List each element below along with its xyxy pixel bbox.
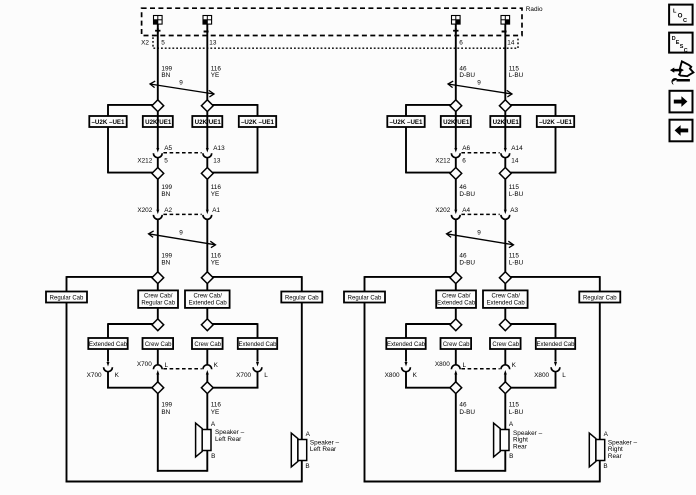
connector X800 link [461,368,499,370]
svg-text:6: 6 [462,158,466,165]
radio (dashed outline box) [142,8,522,35]
svg-text:L-BU: L-BU [509,191,524,198]
connector X212 pin A14/14 [501,148,510,158]
svg-text:L-BU: L-BU [509,260,524,267]
svg-text:46: 46 [459,184,467,191]
wire [108,172,153,174]
cab box Regular Cab [281,292,322,303]
svg-text:9: 9 [179,79,183,86]
wire 116 YE [206,179,208,210]
svg-text:Rear: Rear [513,444,528,451]
svg-text:BN: BN [161,72,170,79]
svg-text:Regular Cab: Regular Cab [50,296,84,302]
splice diamond [201,100,213,112]
svg-text:115: 115 [509,253,520,260]
svg-text:YE: YE [211,260,220,267]
cab box Crew Cab [490,338,521,349]
connector X202 pin A4 [451,210,460,220]
wire [406,172,451,174]
cab box Crew Cab [192,338,223,349]
icon related repair (arrows and wrench) [670,61,694,85]
wire 199 BN [157,179,159,210]
option box -U2K -UE1 [387,116,424,127]
wire [455,308,457,319]
svg-text:D-BU: D-BU [459,72,475,79]
svg-text:Crew Cab: Crew Cab [443,342,470,348]
label Speaker Left Rear [310,439,340,453]
option box -U2K -UE1 [239,116,276,127]
splice diamond [152,272,164,284]
svg-text:K: K [214,362,219,369]
svg-text:116: 116 [211,253,222,260]
connector X700 pin K (extended cab) [104,362,113,372]
svg-text:X212: X212 [435,158,450,165]
svg-text:Crew Cab: Crew Cab [145,342,172,348]
wire 199 BN [157,219,159,271]
svg-text:C: C [683,18,687,24]
icon LOC (component location) [669,5,693,25]
svg-text:X202: X202 [435,207,450,214]
wire extended cab branch [108,323,153,325]
wire regular cab return [511,276,600,278]
wire regular cab feed [67,276,153,278]
svg-text:6: 6 [459,39,463,46]
polarity + [453,28,458,33]
svg-text:Left Rear: Left Rear [215,436,242,443]
twisted pair marker 9 [448,81,512,97]
option box U2K/UE1 [192,116,222,127]
svg-text:116: 116 [211,184,222,191]
connector X202 pin A3 [501,210,510,220]
svg-text:9: 9 [477,229,481,236]
wire branch to -U2K [213,104,258,106]
icon DESC (description) [669,33,693,54]
splice diamond [152,100,164,112]
cab box Crew Cab/Extended Cab [436,290,476,308]
splice diamond [201,168,213,180]
wire [157,374,159,382]
svg-text:X2: X2 [141,39,149,46]
svg-text:–U2K –UE1: –U2K –UE1 [241,119,275,126]
wire [504,112,506,149]
svg-text:YE: YE [211,409,220,416]
svg-text:A5: A5 [164,145,172,152]
option box -U2K -UE1 [89,116,126,127]
label Speaker Right Rear [513,430,543,451]
wire [206,158,208,168]
svg-text:X700: X700 [137,361,152,368]
connector X700 pin K (crew cab) [203,365,212,375]
svg-text:L-BU: L-BU [509,72,524,79]
svg-text:Crew Cab/: Crew Cab/ [144,293,173,299]
cab box Crew Cab [143,338,174,349]
svg-text:Left Rear: Left Rear [310,446,337,453]
svg-text:Extended Cab: Extended Cab [387,342,426,348]
svg-text:9: 9 [179,229,183,236]
connector X800 pin L (extended cab) [551,362,560,372]
svg-text:Crew Cab: Crew Cab [194,342,221,348]
svg-text:14: 14 [507,39,515,46]
connector X212 pin A6/6 [451,148,460,158]
splice diamond [152,168,164,180]
splice diamond [152,382,164,394]
wire [511,172,556,174]
polarity - [502,31,507,33]
splice diamond [499,382,511,394]
option box U2K/UE1 [490,116,520,127]
svg-text:X212: X212 [137,158,152,165]
svg-text:Crew Cab/: Crew Cab/ [194,293,223,299]
wire [455,349,457,365]
option box U2K/UE1 [143,116,173,127]
svg-text:D-BU: D-BU [459,191,475,198]
wire [504,374,506,382]
wire [157,308,159,319]
svg-text:Regular Cab: Regular Cab [348,296,382,302]
svg-text:115: 115 [509,184,520,191]
icon back (left arrow) [670,120,693,142]
splice diamond [499,168,511,180]
wire [504,308,506,319]
connector X800 pin L (crew cab) [451,365,460,375]
splice diamond [450,168,462,180]
svg-text:–U2K –UE1: –U2K –UE1 [91,119,125,126]
splice diamond [499,319,511,331]
svg-text:199: 199 [161,253,172,260]
svg-text:Extended Cab: Extended Cab [437,301,476,307]
svg-text:BN: BN [161,409,170,416]
svg-text:13: 13 [209,39,217,46]
wire [206,349,208,365]
wire extended cab branch [213,323,258,325]
connector X212 pin A5/5 [153,148,162,158]
connector X800 pin K (crew cab) [501,365,510,375]
cab box Crew Cab/Regular Cab [138,290,178,308]
svg-text:X700: X700 [87,372,102,379]
splice diamond [450,382,462,394]
svg-text:A14: A14 [511,145,523,152]
connector X202 pin A2 [153,210,162,220]
svg-text:A: A [604,431,609,438]
svg-text:L: L [673,9,677,15]
svg-text:Radio: Radio [526,6,543,13]
wire [504,349,506,365]
label Speaker Right Rear [608,439,638,460]
wire 116 YE from radio [206,24,208,100]
svg-text:199: 199 [161,402,172,409]
wire regular cab return [213,276,302,278]
splice diamond [152,319,164,331]
svg-text:X800: X800 [385,372,400,379]
splice diamond [201,319,213,331]
speaker Left Rear (crew/ext cab) [196,423,211,457]
svg-text:14: 14 [511,158,519,165]
svg-text:A4: A4 [462,207,470,214]
cab box Crew Cab/Extended Cab [185,290,230,308]
splice diamond [450,100,462,112]
svg-text:D-BU: D-BU [459,409,475,416]
svg-text:9: 9 [477,79,481,86]
splice diamond [450,272,462,284]
wire 115 L-BU from radio [504,24,506,100]
svg-text:Extended Cab: Extended Cab [238,342,277,348]
radio output square (right +) [452,16,461,25]
svg-text:5: 5 [164,158,168,165]
svg-text:A2: A2 [164,207,172,214]
svg-text:X800: X800 [435,361,450,368]
cab box Extended Cab [386,338,425,349]
svg-text:A1: A1 [212,207,220,214]
wire 46 D-BU [455,219,457,271]
svg-text:YE: YE [211,191,220,198]
wire [206,112,208,149]
wire branch to -U2K [511,104,556,106]
twisted pair marker 9 [150,81,214,97]
svg-text:K: K [512,362,517,369]
svg-text:199: 199 [161,184,172,191]
twisted pair marker 9 [447,231,514,248]
svg-text:YE: YE [211,72,220,79]
wire [107,372,109,389]
svg-text:A13: A13 [213,145,225,152]
option box -U2K -UE1 [537,116,574,127]
wire [455,284,457,291]
svg-text:BN: BN [161,191,170,198]
svg-text:B: B [305,463,309,470]
polarity - [204,31,209,33]
wire [455,112,457,149]
speaker Right Rear (crew/ext cab) [494,423,509,457]
wire [206,284,208,291]
wire [257,372,259,389]
wire 46 D-BU to speaker [455,394,457,472]
svg-text:BN: BN [161,260,170,267]
wire branch to -U2K [406,104,451,106]
svg-text:13: 13 [213,158,221,165]
radio output square (left -) [203,16,212,25]
svg-text:Regular Cab: Regular Cab [141,301,175,307]
svg-text:Extended Cab: Extended Cab [89,342,128,348]
wire 46 D-BU from radio [455,24,457,100]
splice diamond [450,319,462,331]
svg-text:Rear: Rear [608,453,623,460]
svg-text:B: B [211,453,215,460]
connector X700 link [163,368,201,370]
twisted pair marker 9 [149,231,216,248]
svg-text:–U2K –UE1: –U2K –UE1 [539,119,573,126]
svg-text:–U2K –UE1: –U2K –UE1 [389,119,423,126]
svg-text:X800: X800 [534,372,549,379]
svg-text:L: L [264,372,268,379]
connector X700 pin L (crew cab) [153,365,162,375]
connector X202 link [163,213,201,215]
label Speaker Left Rear [215,429,245,443]
polarity + [155,28,160,33]
wire extended cab branch [406,323,451,325]
wire [213,172,258,174]
connector X2 (dotted connector outline) [153,37,518,48]
svg-text:L: L [562,372,566,379]
speaker Left Rear (regular cab) [291,433,306,467]
connector X202 pin A1 [203,210,212,220]
svg-text:46: 46 [459,402,467,409]
wire [157,112,159,149]
cab box Extended Cab [536,338,575,349]
wire 115 L-BU [504,219,506,271]
svg-text:L: L [463,362,467,369]
svg-text:B: B [509,453,513,460]
wire [157,284,159,291]
wire extended cab branch [511,323,556,325]
svg-text:Regular Cab: Regular Cab [285,296,319,302]
wire 46 D-BU [455,179,457,210]
svg-text:D-BU: D-BU [459,260,475,267]
svg-text:O: O [678,13,683,20]
connector X700 pin L (extended cab) [253,362,262,372]
svg-text:A: A [211,421,216,428]
cab box Regular Cab [579,292,620,303]
wire 115 L-BU [504,179,506,210]
wire 116 YE [206,219,208,271]
svg-text:K: K [115,372,120,379]
splice diamond [499,272,511,284]
svg-text:115: 115 [509,402,520,409]
wire [157,349,159,365]
radio output square (left +) [154,16,163,25]
wire [405,372,407,389]
cab box Extended Cab [88,338,127,349]
wire regular cab feed [365,276,451,278]
connector X212 link [163,152,201,154]
svg-text:5: 5 [161,39,165,46]
svg-text:Crew Cab/: Crew Cab/ [442,293,471,299]
wire [455,374,457,382]
svg-text:L-BU: L-BU [509,409,524,416]
svg-text:Regular Cab: Regular Cab [583,296,617,302]
wire bottom run [66,481,302,483]
svg-text:Extended Cab: Extended Cab [487,301,526,307]
svg-text:A3: A3 [510,207,518,214]
wire 199 BN to speaker [157,394,159,472]
svg-text:C: C [684,48,688,54]
svg-text:Extended Cab: Extended Cab [536,342,575,348]
wire [455,158,457,168]
wire [206,308,208,319]
connector X202 link [461,213,499,215]
wire 199 BN from radio [157,24,159,100]
cab box Crew Cab/Extended Cab [483,290,528,308]
cab box Regular Cab [46,292,87,303]
speaker Right Rear (regular cab) [589,433,604,467]
svg-text:X202: X202 [137,207,152,214]
wire [157,158,159,168]
svg-text:X700: X700 [236,372,251,379]
radio output square (right -) [501,16,510,25]
connector X800 pin K (extended cab) [402,362,411,372]
wire [206,374,208,382]
svg-text:A: A [509,421,514,428]
cab box Crew Cab [441,338,472,349]
wire branch to -U2K [108,104,153,106]
icon next (right arrow) [670,91,693,113]
connector X212 pin A13/13 [203,148,212,158]
svg-text:Crew Cab: Crew Cab [492,342,519,348]
wire [504,158,506,168]
svg-text:L: L [165,362,169,369]
svg-text:46: 46 [459,253,467,260]
svg-text:A: A [306,431,311,438]
splice diamond [201,382,213,394]
cab box Extended Cab [238,338,277,349]
svg-text:116: 116 [211,402,222,409]
splice diamond [201,272,213,284]
svg-text:Crew Cab/: Crew Cab/ [492,293,521,299]
wire bottom run [364,481,600,483]
svg-text:A6: A6 [462,145,470,152]
option box U2K/UE1 [441,116,471,127]
connector X212 link [461,152,499,154]
splice diamond [499,100,511,112]
wire [504,284,506,291]
wire 116 YE to speaker [206,394,208,430]
wire 115 L-BU to speaker [504,394,506,430]
svg-text:K: K [413,372,418,379]
svg-text:B: B [603,463,607,470]
wire [555,372,557,389]
cab box Regular Cab [344,292,385,303]
svg-text:Extended Cab: Extended Cab [189,301,228,307]
